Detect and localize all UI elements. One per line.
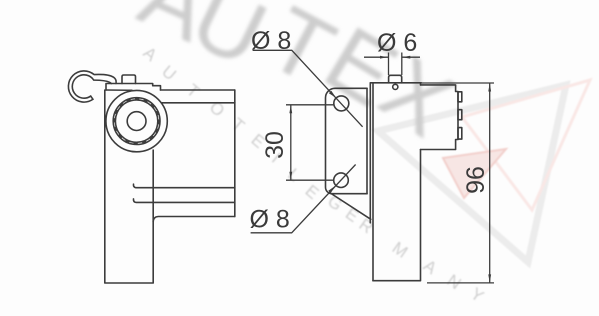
arrow leader top dia8 bbox=[329, 91, 336, 98]
pulley block rib tab 3 bbox=[458, 128, 462, 140]
arrow 96 bottom bbox=[488, 274, 491, 283]
body top edge bbox=[161, 89, 235, 91]
slot line A bbox=[133, 184, 234, 188]
ring clip lower end cap bbox=[91, 96, 93, 99]
watermark word GERMANY bbox=[324, 191, 487, 306]
watermark logo solid pink triangle bbox=[443, 149, 506, 198]
pulley rim ticks bbox=[114, 99, 159, 144]
top plate bbox=[106, 84, 161, 91]
arrow 30 top bbox=[289, 105, 292, 114]
watermark logo big gray triangle bbox=[378, 85, 566, 262]
svg-text:Ø 8: Ø 8 bbox=[251, 27, 291, 55]
body top edge bbox=[370, 82, 421, 84]
body bottom and right bbox=[373, 150, 421, 281]
body outline left column bbox=[105, 90, 153, 283]
pulley rim circles bbox=[113, 98, 160, 145]
flange top hole bbox=[334, 96, 349, 111]
arrow dia6 right bbox=[402, 56, 411, 59]
body right upper short edge bbox=[420, 83, 422, 85]
dim 30 line bbox=[290, 105, 292, 180]
slot line B bbox=[133, 199, 234, 203]
dim 96 line bbox=[489, 83, 491, 283]
dim dia6 line segments bbox=[364, 56, 420, 58]
ring clip outer arc continuing into arm upper edge bbox=[68, 71, 116, 102]
flange outline bbox=[326, 88, 368, 193]
pulley hub hole bbox=[127, 112, 146, 131]
leader top dia8 bbox=[253, 50, 363, 127]
body right edge bbox=[234, 90, 236, 217]
arrow 30 bottom bbox=[289, 172, 292, 181]
pulley block rib tab 2 bbox=[458, 110, 462, 120]
top tab bbox=[122, 75, 136, 84]
body left silhouette bbox=[372, 83, 374, 281]
watermark logo pink outline triangle bbox=[462, 80, 590, 210]
arrow 96 top bbox=[488, 83, 491, 92]
svg-text:Ø 6: Ø 6 bbox=[377, 29, 417, 57]
arrow dia6 left bbox=[380, 56, 389, 59]
flange bottom hole bbox=[334, 173, 349, 188]
top stub bbox=[389, 75, 402, 83]
dim dia6 extension lines bbox=[389, 53, 402, 76]
watermark word AUTEX bbox=[126, 0, 471, 156]
plate bottom edge bbox=[106, 89, 132, 91]
svg-text:96: 96 bbox=[462, 166, 490, 194]
arm bottom edge with fillet bbox=[153, 217, 235, 222]
gusset rib bbox=[330, 193, 371, 220]
arrow leader bottom dia8 bbox=[328, 186, 335, 193]
flange right edge bbox=[366, 88, 368, 193]
svg-text:Ø 8: Ø 8 bbox=[250, 206, 290, 234]
stub small hole bbox=[393, 84, 398, 89]
dim 96 extension lines bbox=[421, 83, 494, 283]
inner top line bbox=[162, 102, 235, 104]
body face line bbox=[369, 83, 371, 223]
svg-text:30: 30 bbox=[261, 131, 289, 159]
dim 30 extension lines bbox=[286, 105, 335, 180]
pulley block side bbox=[421, 85, 459, 150]
pulley outer circle bbox=[106, 90, 167, 151]
leader bottom dia8 bbox=[251, 165, 356, 233]
ring clip inner arc continuing into arm lower edge bbox=[72, 75, 111, 98]
pulley block rib tab 1 bbox=[458, 92, 462, 102]
watermark word AUTOTEILE bbox=[140, 43, 323, 203]
